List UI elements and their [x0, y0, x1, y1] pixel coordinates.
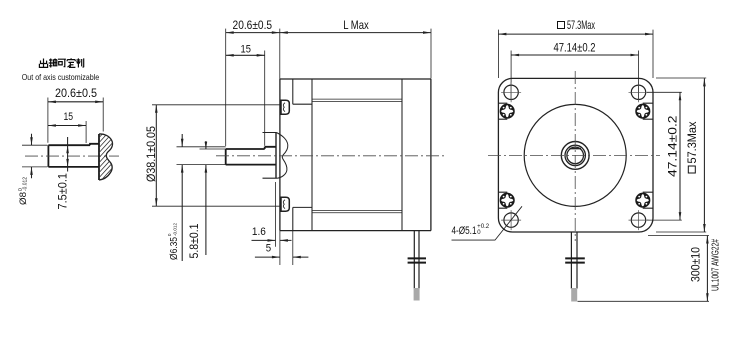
dim Ø8 arrows (left view, outside) [31, 134, 33, 179]
screw pocket TL [498, 103, 507, 119]
dim text 47.14±0.2 (rotated right) [667, 116, 680, 178]
boss break outline (middle) [275, 133, 277, 179]
ext lines 57.3 vertical [656, 78, 706, 232]
svg-text:Ø8: Ø8 [18, 192, 29, 205]
wire connector bars (right view) [565, 258, 585, 262]
ext lines 47.14 top [511, 51, 638, 100]
dim text 300±10 (rotated) [690, 247, 703, 282]
flange corner silhouette (middle) [293, 79, 312, 231]
svg-text:-0.012: -0.012 [172, 222, 177, 236]
wire gray tail (middle) [414, 288, 420, 301]
svg-text:UL1007 AWG22#: UL1007 AWG22# [711, 239, 722, 291]
svg-text:Out of axis customizable: Out of axis customizable [22, 73, 100, 82]
pilot circle Ø38.1 [524, 104, 626, 206]
front end cap boundary (middle) [311, 79, 313, 231]
phillips screw BR [635, 193, 650, 208]
hatching (left view boss) [96, 114, 116, 196]
dim 5.8 line (middle) [205, 141, 207, 255]
dim line 47.14 (top) [511, 54, 638, 56]
svg-text:57.3Max: 57.3Max [686, 121, 699, 163]
body chamfer lines top (middle) [312, 99, 402, 101]
dim 1.6 lines+arrows (middle, outside) [252, 239, 292, 241]
ext lines 300±10 [578, 236, 710, 302]
ext line left (shaft end, left view) [47, 98, 49, 143]
svg-text:Ø38.1±0.05: Ø38.1±0.05 [145, 126, 158, 182]
screw pocket BR [643, 192, 653, 208]
svg-text:Ø6.35: Ø6.35 [169, 237, 180, 260]
ext line flat end (middle) [264, 51, 266, 146]
ext lines Ø6.35 (middle) [177, 147, 226, 165]
label 4-Ø5.1 +0.2/0 [452, 224, 490, 237]
dim line 57.3 (top) [498, 33, 653, 35]
shaft outline (middle) [226, 147, 276, 165]
ext line body rear top (middle) [430, 29, 432, 79]
centerline (middle) [216, 155, 447, 157]
dim line Ø38.1 (middle) [155, 105, 157, 206]
svg-text:15: 15 [64, 111, 74, 123]
svg-text:5: 5 [266, 243, 271, 255]
leader line 4-Ø5.1 [452, 206, 523, 240]
ext line flange face top (middle) [279, 29, 281, 79]
svg-text:47.14±0.2: 47.14±0.2 [554, 42, 596, 55]
phillips screw BL [500, 193, 515, 208]
svg-text:5.8±0.1: 5.8±0.1 [188, 224, 201, 259]
centerline (left view) [25, 155, 119, 157]
dim text 5.8±0.1 (rotated) [188, 224, 201, 259]
ext lines Ø8 (left view) [22, 145, 47, 167]
dim text □57.3Max (top) [558, 19, 596, 32]
wire gray tail (right view) [571, 288, 577, 302]
mounting hole TR [629, 82, 649, 102]
ext line right (flange face, left view) [102, 98, 104, 132]
dim text Ø8 0/-0.012 (rotated) [18, 177, 29, 205]
mounting hole BL [501, 210, 521, 230]
mounting hole TL [501, 82, 521, 102]
svg-text:20.6±0.5: 20.6±0.5 [55, 87, 97, 100]
label Chinese: 出轴可定制 [39, 58, 83, 67]
phillips screw TR [635, 104, 650, 119]
dim text □57.3Max (rotated right) [686, 121, 699, 173]
horizontal centerline (right view) [488, 154, 660, 156]
ext line boss face (middle) [275, 182, 277, 247]
svg-text:57.3Max: 57.3Max [567, 19, 595, 32]
svg-text:300±10: 300±10 [690, 247, 703, 282]
boss section / mushroom (left view) [98, 134, 100, 180]
dim line 15 (left view) [48, 125, 86, 127]
ext line 15 right (flat end, left view) [85, 121, 87, 143]
label UL1007 AWG22# (rotated) [711, 239, 722, 291]
svg-text:47.14±0.2: 47.14±0.2 [667, 116, 680, 178]
shaft outline (left view) [48, 144, 99, 167]
ext lines Ø38.1 (middle) [152, 105, 281, 206]
ext line shaft end (middle) [225, 29, 227, 146]
tie-rod screw head top (middle) [281, 100, 289, 114]
ext line 5.8 flat (middle) [200, 148, 226, 150]
svg-text:15: 15 [241, 43, 251, 55]
ext lines 47.14 vertical [647, 92, 682, 220]
screw pocket TR [643, 103, 653, 119]
dim line L Max [280, 32, 431, 34]
phillips screw TL [500, 104, 515, 119]
dim line 15 (middle) [226, 54, 265, 56]
svg-text:-0.012: -0.012 [23, 177, 29, 191]
svg-text:4-Ø5.1: 4-Ø5.1 [452, 225, 477, 237]
motor body outline (middle) [280, 79, 431, 231]
dim line 57.3 vertical (right side) [703, 78, 705, 232]
dim text Ø6.35 0/-0.012 (rotated) [167, 222, 180, 260]
dim text 7.5±0.1 (rotated) [57, 173, 70, 210]
dim 5 lines+arrows (middle, outside) [255, 256, 309, 258]
vertical centerline (right view) [574, 71, 576, 241]
front face square [498, 78, 653, 232]
shaft circle Ø6.35 with flat [567, 147, 584, 164]
tie-rod screw head bottom (middle) [281, 197, 289, 211]
ext line flange rear (middle) [292, 231, 294, 265]
rear end cap boundary (middle) [401, 79, 403, 231]
lead wires (middle) [414, 231, 419, 289]
svg-text:1.6: 1.6 [252, 226, 266, 238]
dim line 47.14 vertical (right side) [679, 92, 681, 220]
dim line 20.6 (middle) [226, 32, 280, 34]
shaft boss circle [561, 142, 589, 170]
svg-text:20.6±0.5: 20.6±0.5 [233, 19, 273, 32]
wire connector bars (middle) [408, 258, 426, 262]
dim 7.5 line (left view) [67, 137, 69, 172]
svg-text:7.5±0.1: 7.5±0.1 [57, 173, 70, 210]
dim line 20.6 (left view) [48, 101, 103, 103]
mounting hole BR [629, 210, 649, 230]
dim Ø6.35 line (middle) [181, 134, 183, 261]
shaft circle Ø8 [565, 145, 585, 165]
svg-text:L Max: L Max [343, 19, 369, 32]
screw pocket BL [498, 192, 507, 208]
lead wires (right view) [571, 232, 577, 289]
ext lines 57.3 top [498, 30, 653, 78]
ext line flange face bottom (middle) [279, 231, 281, 265]
dim text Ø38.1±0.05 (rotated) [145, 126, 158, 182]
body chamfer lines bottom (middle) [312, 210, 402, 212]
boss break edges (middle) [263, 133, 278, 179]
dim line 300±10 [706, 236, 708, 302]
